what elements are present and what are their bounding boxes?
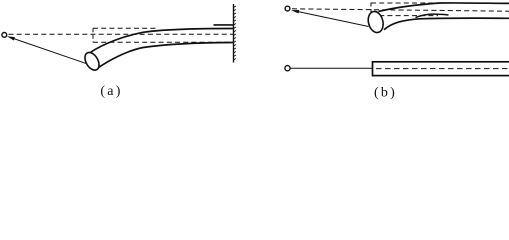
sight line (b) bottom xyxy=(290,67,372,69)
eye circle (b) bottom xyxy=(285,66,290,71)
sight dashed line (b) top xyxy=(292,9,509,11)
arrow line (b) xyxy=(297,11,369,26)
barrel centerline dashed (b) xyxy=(376,68,509,70)
dashed outline (b) xyxy=(370,3,372,17)
sight dashed line (a) xyxy=(9,33,234,35)
barrel breech step arc (b) xyxy=(416,14,449,18)
straight barrel rect (b) xyxy=(373,62,509,76)
dashed outline rect (a) xyxy=(92,28,94,42)
svg-text:(a): (a) xyxy=(100,84,122,99)
wall (a) xyxy=(233,4,235,63)
barrel end ellipse (a) xyxy=(82,50,102,73)
eye circle (b) top xyxy=(285,6,290,11)
barrel top edge (a) xyxy=(91,28,234,52)
barrel bottom edge (b) xyxy=(384,18,509,30)
svg-text:(b): (b) xyxy=(374,86,397,101)
barrel breech step line (a) xyxy=(214,24,234,26)
barrel end ellipse (b) xyxy=(366,10,385,34)
eye circle (a) xyxy=(2,33,7,38)
barrel top edge (b) xyxy=(379,3,509,12)
arrow line (a) xyxy=(12,38,87,64)
barrel bottom edge (a) xyxy=(97,43,234,69)
